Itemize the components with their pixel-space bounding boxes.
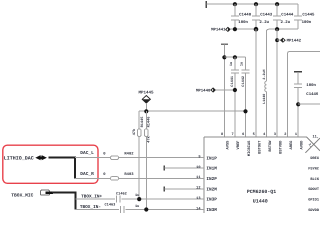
testpoint MP1440 [196, 88, 237, 94]
svg-text:2.2u: 2.2u [259, 20, 269, 25]
wire IN2M stub [164, 188, 204, 190]
node junction MICBIAS at MP1445 [144, 109, 148, 113]
node junction R1445 IN3P [137, 197, 141, 201]
svg-text:DAC_R: DAC_R [80, 171, 94, 177]
svg-text:L1440: L1440 [262, 94, 267, 104]
svg-text:FSYNC: FSYNC [308, 167, 320, 172]
svg-text:IN2P: IN2P [206, 177, 217, 182]
node junction rail2B C1444 [275, 27, 279, 31]
wire rail2 segment B [267, 29, 299, 31]
svg-text:13: 13 [196, 196, 200, 201]
svg-text:BLCK: BLCK [310, 177, 319, 182]
svg-text:2.2uH: 2.2uH [262, 69, 267, 79]
svg-text:MP1441: MP1441 [211, 28, 226, 33]
svg-text:1u: 1u [240, 62, 245, 66]
svg-text:C1441: C1441 [230, 76, 235, 87]
svg-text:SDOUT: SDOUT [308, 187, 320, 192]
svg-text:IN2M: IN2M [206, 187, 217, 192]
svg-text:8: 8 [221, 132, 223, 137]
capacitor C1443 2.2u [252, 4, 273, 29]
wire TBOX_IN+ to pin13 [121, 198, 204, 200]
node junction rail2A BSTOUT column [254, 27, 259, 32]
svg-text:C1445: C1445 [302, 13, 315, 18]
svg-text:LITHIO_DAC: LITHIO_DAC [4, 155, 34, 161]
node junction DVDD branch [296, 102, 300, 106]
svg-text:1u: 1u [229, 62, 234, 66]
wire AVDD pin2 feed [288, 52, 320, 137]
svg-text:AVSS: AVSS [226, 140, 231, 150]
wire DAC_R to pin11 [119, 177, 205, 179]
wire AREG column pin3 [276, 29, 278, 137]
node stub terminal top-left [205, 1, 207, 8]
svg-text:DREG: DREG [310, 156, 319, 161]
svg-text:C1446: C1446 [306, 92, 319, 97]
wire DVDD branch right [298, 103, 320, 105]
svg-text:C1462: C1462 [116, 191, 127, 196]
svg-text:100n: 100n [238, 20, 248, 25]
node stub bar IN1M [163, 166, 165, 171]
svg-text:C1440: C1440 [239, 13, 252, 18]
svg-text:10: 10 [196, 165, 200, 170]
wire DAC_R [75, 177, 110, 179]
svg-text:9: 9 [198, 155, 200, 160]
svg-text:AVDD: AVDD [300, 140, 305, 150]
svg-text:MP1440: MP1440 [196, 88, 211, 93]
svg-text:47k: 47k [132, 128, 137, 135]
svg-text:U1440: U1440 [253, 198, 268, 204]
node junction AVSS branch [222, 55, 226, 59]
capacitor C1440 100n [231, 4, 252, 29]
wire DAC_L to pin9 [119, 157, 205, 159]
svg-text:MP1445: MP1445 [138, 90, 154, 95]
wire DAC bus [48, 158, 75, 179]
svg-text:GPIO1: GPIO1 [308, 198, 319, 203]
wire rail2 segment A [230, 28, 256, 30]
wire BSTOUT column pin5 [255, 29, 257, 137]
svg-text:IN1M: IN1M [206, 167, 217, 172]
inductor L1440 2.2uH [262, 31, 267, 136]
svg-text:BSTVDD: BSTVDD [278, 140, 283, 154]
svg-text:7: 7 [232, 132, 234, 137]
wire top rail AVSS_FLT [206, 3, 298, 5]
svg-text:C1443: C1443 [260, 13, 273, 18]
svg-text:R403: R403 [124, 172, 134, 177]
wire TBOX_IN+ [75, 198, 115, 200]
svg-text:MICBIAS: MICBIAS [247, 140, 252, 156]
svg-text:100n: 100n [306, 83, 316, 88]
svg-text:47k: 47k [147, 135, 152, 142]
svg-text:C1444: C1444 [281, 13, 294, 18]
resistor R1446 47k [144, 111, 151, 209]
testpoint MP1441 [211, 27, 230, 32]
svg-text:3: 3 [274, 132, 276, 137]
capacitor C1446 100n on DVDD pin1 [294, 72, 319, 137]
svg-text:R402: R402 [124, 151, 134, 156]
wire MICBIAS rail [139, 110, 245, 112]
wire IN1M stub [164, 167, 204, 169]
svg-text:1: 1 [295, 132, 297, 137]
node junction rail2A C1440 [233, 27, 237, 31]
svg-text:AREG: AREG [289, 140, 294, 150]
svg-text:5: 5 [253, 132, 255, 137]
IC U1440 PCM6260-Q1 outline [204, 135, 320, 213]
svg-text:DAC_L: DAC_L [80, 150, 94, 156]
svg-text:R1446: R1446 [147, 117, 152, 128]
capacitor C1442 1u on MICBIAS pin6 [240, 57, 250, 137]
wire TBOX bus [52, 193, 75, 210]
node stub bar AVSS [221, 43, 228, 45]
node stub bar IN2M [163, 186, 165, 191]
wire AVSS branch [224, 56, 245, 58]
svg-text:2: 2 [284, 132, 286, 137]
svg-text:SDVDD: SDVDD [308, 208, 320, 213]
node junction R1446 IN3M [144, 207, 148, 211]
svg-text:2.2u: 2.2u [281, 20, 291, 25]
testpoint MP1442 [275, 38, 301, 43]
resistor R403 0 [103, 172, 134, 180]
svg-text:BSTSW: BSTSW [268, 140, 273, 152]
svg-text:VREF: VREF [236, 141, 241, 150]
resistor R1445 47k [132, 111, 145, 199]
node junction rail1 at C1440 [233, 2, 237, 6]
capacitor C1445 100n [294, 4, 315, 29]
svg-text:100n: 100n [302, 20, 312, 25]
svg-text:IN3M: IN3M [206, 208, 217, 213]
port TBOX_MIC connector [11, 190, 53, 198]
node junction rail1 at C1444 [275, 2, 279, 6]
node junction branch at C1441 [233, 55, 237, 59]
svg-text:TBOX_MIC: TBOX_MIC [11, 192, 33, 198]
svg-text:MP1442: MP1442 [287, 39, 302, 44]
capacitor C1441 1u on VREF pin7 [229, 57, 239, 137]
svg-text:C1463: C1463 [105, 202, 116, 207]
svg-text:IN3P: IN3P [206, 198, 217, 203]
svg-text:12: 12 [196, 186, 200, 191]
svg-text:1u: 1u [135, 204, 139, 209]
wire TBOX_IN- to pin14 [125, 209, 204, 211]
resistor R402 0 [103, 151, 134, 159]
svg-text:11: 11 [196, 175, 200, 180]
svg-text:R1445: R1445 [140, 117, 145, 128]
svg-text:C1442: C1442 [241, 76, 246, 87]
capacitor C1463 1u [75, 202, 139, 213]
node junction rail1 at C1443 [254, 2, 258, 6]
node junction MICBIAS at pin6 column [243, 109, 247, 113]
svg-text:PCM6260-Q1: PCM6260-Q1 [247, 189, 276, 195]
svg-text:BSTOUT: BSTOUT [257, 140, 262, 154]
wire DAC_L [75, 157, 110, 159]
svg-text:11,: 11, [313, 135, 319, 140]
port LITHIO_DAC [4, 155, 47, 161]
testpoint MP1445 [138, 90, 154, 111]
svg-text:IN1P: IN1P [206, 156, 217, 161]
wire AVSS column pin8 [223, 45, 225, 137]
capacitor C1444 2.2u [273, 4, 294, 29]
red highlight box [3, 145, 98, 183]
capacitor C1462 1u [116, 191, 139, 202]
svg-text:6: 6 [242, 132, 244, 137]
